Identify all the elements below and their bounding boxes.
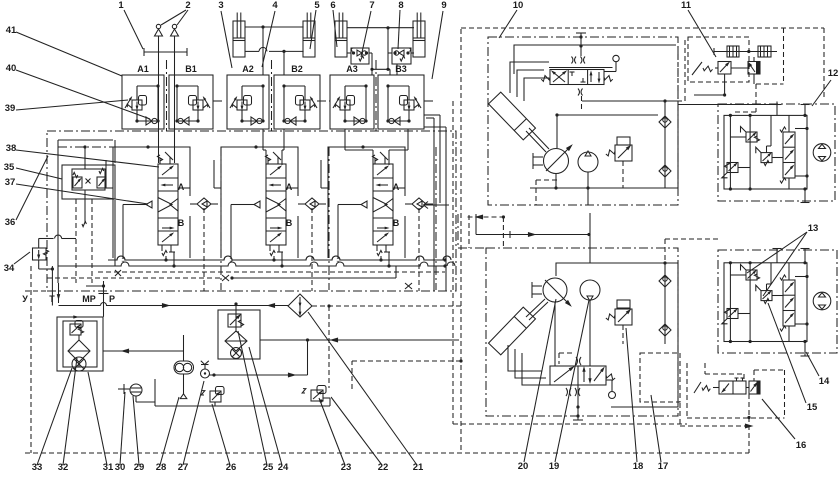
section divider dash-dot verticals [166,60,168,131]
svg-text:36: 36 [5,217,16,228]
gauge pair 28 capsule [174,361,194,374]
pump B outlet lines [589,300,591,366]
tank gallery bus 1 [108,259,445,261]
spool section 3 left port arrow [361,201,367,208]
filter unit block 31-33 [57,317,103,371]
pump A relief valve [615,145,632,161]
svg-text:28: 28 [156,462,167,473]
svg-text:38: 38 [6,143,17,154]
inlet section frame [424,114,440,116]
motor 14 inner frame [724,263,807,342]
pump A case drain dashed [536,179,557,181]
spool section 2 work port lines [214,187,221,189]
label 26 leader [212,404,230,465]
pilot port X mark 2 [405,283,412,289]
pilot dash-dot links between sections [213,100,224,102]
filter 24 [225,331,247,351]
pilot dashed return line [468,216,504,218]
work port risers A3 B3 [344,129,346,150]
section A3 inner frame [345,85,366,87]
svg-text:13: 13 [808,223,819,234]
spool section 1 section frame [113,147,190,258]
outer dashed boundary left [30,266,32,453]
pilot port X mark 0 [115,270,121,276]
label 40 leader [16,70,150,119]
pilot lever 16 [694,382,701,393]
pair2 interconnect line [347,27,414,29]
svg-text:2: 2 [185,0,190,11]
svg-text:7: 7 [369,0,374,11]
pilot valve 11a [718,62,731,75]
svg-text:11: 11 [681,0,692,11]
pilot drain dashed rail 1 [98,271,445,273]
pump A valve springs [541,74,551,81]
air bleed symbol 2a [155,29,163,36]
bottom gallery line [155,405,330,407]
pilot group 11 drains [724,74,726,95]
label 11 leader [688,10,716,57]
label 4 leader [262,11,275,67]
pair1 interconnect lines [245,26,304,28]
pump B relief valve [615,309,632,325]
section B2 anticavitation check [284,120,305,122]
section A1 relief valve [132,100,142,110]
pump A servo cylinder [489,92,536,140]
bypass relief 25 [228,314,241,327]
filter unit 2 block 24-25 [218,310,260,359]
hydraulic motor 14 [813,292,831,310]
port relief section B1 [169,75,213,129]
pilot valve 11b [753,57,755,62]
main pump A [544,149,569,174]
section A1 anticavitation check [137,120,158,122]
directional spool valve section 2 [266,164,286,245]
svg-text:B1: B1 [185,64,197,74]
work port risers A2 B2 [262,129,264,150]
spool section 1 center bowtie [158,198,172,213]
label 20 leader [524,299,556,462]
spool section 3 section frame [328,147,405,258]
pump A control valve [550,70,604,85]
label 12 leader [812,80,831,106]
cylinder 3 (left of pair 1) [233,21,245,57]
reducing valve 35b [97,177,106,188]
pilot dashed link to pump B [351,361,353,389]
pump B dash-dot entry [457,214,459,248]
pump B check diamond 2 [659,324,671,336]
label 17 leader [651,395,661,462]
MP port [103,281,105,317]
svg-text:35: 35 [4,162,15,173]
pump A check diamond 2 [659,165,671,177]
svg-text:10: 10 [513,0,524,11]
label 37 leader [16,184,148,204]
cooler 33 [72,357,86,371]
mid dashed vertical 1 [460,29,462,452]
pump A valve knob [604,71,616,73]
motor 12 relief a [746,132,757,142]
main riser B1 [174,36,176,163]
label 32 leader [63,358,77,465]
main riser A1 [158,36,160,163]
svg-text:12: 12 [828,68,839,79]
pilot valve 16 body [719,381,746,394]
label 16 leader [762,399,795,439]
valve 34 feed lines [38,238,40,248]
motor 12 relief b [727,163,738,173]
svg-text:5: 5 [314,0,320,11]
svg-text:30: 30 [115,462,126,473]
cylinder 5 (right of pair 1) [303,21,315,57]
spool section 3 pilot cap [374,158,376,164]
spool section 2 anticav check [305,198,319,210]
return line continues dashed [312,305,461,307]
valve block bottom risers [426,117,434,119]
label 23 leader [319,398,345,465]
pilot collector line [230,276,233,279]
svg-text:B: B [393,218,400,228]
section A3 anticavitation check [345,120,366,122]
svg-text:B: B [286,218,293,228]
pump A stair pipes [510,62,549,93]
pump A check line [664,101,666,188]
svg-text:29: 29 [134,462,145,473]
label 5 leader [310,10,316,49]
travel pilot line [678,104,775,106]
pump B valve nozzles [576,357,581,365]
pressure gauge 29 30 [130,384,142,396]
plugged test port line 1 [144,51,187,53]
svg-text:23: 23 [341,462,352,473]
anticav drain dashed risers [203,208,205,291]
section B3 anticavitation check [388,120,409,122]
spool section 1 anticav check [197,198,211,210]
svg-text:4: 4 [272,0,278,11]
cooler 24b [231,348,242,359]
drain funnel 28 [180,394,187,399]
motor 14 relief a [746,270,757,280]
spool section 1 bottom spring [161,245,163,251]
pump B frame [556,263,678,407]
spool section 1 section dash-dot divider [220,147,222,290]
mid dashed vertical 2 [468,215,470,248]
pump B valve knob [606,379,612,381]
label 22 leader [331,397,382,465]
spool section 1 bottom stubs [165,256,167,260]
svg-text:40: 40 [6,63,17,74]
label 21 leader [308,312,417,465]
section B2 relief valve [300,100,310,110]
bypass relief 31 [70,324,81,335]
label 28 leader [160,397,179,465]
label 34 leader [14,252,30,264]
main pump B [543,278,567,302]
tank suction line with chevron [423,204,449,206]
outer dashed right edge [823,28,825,100]
svg-text:A2: A2 [242,64,254,74]
svg-text:9: 9 [441,0,446,11]
pilot supply dash-dot rail [58,146,113,148]
pump A servo rod [526,131,546,152]
svg-text:B2: B2 [291,64,303,74]
section A2 relief valve [237,100,247,110]
spool section 1 left port arrow [146,201,152,208]
spool section 2 pilot cap [267,158,269,164]
spool section 2 section dash-dot divider [328,147,330,290]
counterbalance valve 14 [783,280,795,326]
label 9 leader [432,11,443,79]
spool section 1 work port lines [106,187,113,189]
pump A valve top rail [549,67,613,69]
svg-text:15: 15 [807,402,818,413]
cylinder 6 (left of pair 2) [335,21,347,57]
shutoff valve 26 [210,391,221,402]
section B1 inner frame [177,85,198,87]
pilot dashed into check line [664,239,666,262]
pump B pilot cap dashed [559,352,572,354]
pilot group 11 dashed box [688,37,749,82]
svg-text:37: 37 [5,177,16,188]
pump supply line P [106,305,288,307]
drop to accumulator valve dashed [328,306,330,388]
pump A feed lines [556,115,558,148]
spool section 3 anticav check [412,198,426,210]
motor 14 relief b [727,309,738,319]
pump B check line [664,263,666,344]
pilot reducing block 35 inner [72,169,105,190]
pump B servo rod [526,299,545,317]
inter-pump supply line [476,234,589,236]
label 31 leader [88,372,107,465]
spool section 2 section frame [221,147,298,258]
cylinder 9 (right of pair 2) [413,21,425,57]
pump block B boundary (dash-dot) [486,248,678,416]
pump region outer dashed boundary [452,101,454,424]
svg-text:27: 27 [178,462,189,473]
port relief section B3 [378,75,424,129]
spool section 1 pilot cap [159,158,161,164]
svg-text:41: 41 [6,25,17,36]
tank line T elbow [58,283,60,303]
spool section 3 section dash-dot divider [435,147,437,290]
directional spool valve section 3 [373,164,393,245]
motor 12 relief c [761,153,772,163]
spool section 2 left port arrow [254,201,260,208]
label 24 leader [249,347,282,465]
brake line [714,51,777,53]
label 19 leader [555,300,589,462]
svg-text:P: P [109,294,115,304]
travel motor box 14 (dash-dot) [718,250,837,353]
outer dashed boundary bottom [25,452,749,454]
relief valve 34 [33,248,47,260]
pump A outlet lines [587,172,589,188]
section A2 inner frame [242,85,263,87]
label 33 leader [37,368,72,465]
return line to filter2 [260,339,459,341]
svg-text:3: 3 [218,0,223,11]
filter2 wiring [235,304,237,332]
brake symbol 11a [727,46,739,57]
pilot check valve 8 [392,48,411,64]
pump B servo cylinder [489,307,536,355]
svg-text:1: 1 [118,0,124,11]
pilot 16 wiring [748,394,750,417]
block 35 riser [84,147,86,169]
label 30 leader [120,392,125,465]
motor 12 port stubs [776,105,778,116]
label 13 leaders [747,232,807,273]
pilot port X mark 1 [222,275,229,281]
hydraulic motor 12 [813,144,831,162]
label 10 leader [499,10,517,38]
pilot group 16 dashed boxes [686,363,688,418]
counterbalance valve 12 [783,132,795,178]
filter unit wiring [78,335,80,340]
pilot check valve 7 [351,48,369,64]
pair2 wiring [387,28,389,69]
svg-text:17: 17 [658,461,669,472]
drain dashed verticals [183,404,185,406]
outer dashed step around valve 11b [783,28,785,84]
motor 14 relief c [761,291,772,301]
tank gallery bus 2 [58,265,445,267]
svg-text:34: 34 [4,263,15,274]
label 35 leader [16,168,62,179]
gauge 27 tap line [210,374,308,376]
main valve block boundary (dash-dot) [47,131,456,291]
pump A regulator frame [514,45,676,74]
pilot reducing block 35 outer [62,165,115,199]
section A2 anticavitation check [242,120,263,122]
section A1 inner frame [137,85,158,87]
svg-text:19: 19 [549,461,560,472]
pump A valve nozzles [572,57,586,64]
label 39 leader [16,100,128,110]
svg-text:33: 33 [32,462,43,473]
svg-text:A: A [178,182,185,192]
label 2 leaders [161,10,186,25]
motor 14 wiring [729,263,731,342]
reducing valve 35a [73,177,82,188]
port relief section A2 [227,75,269,129]
label 14 leader [806,352,819,376]
valve block inner frame [57,140,59,283]
spool section 2 center bowtie [266,198,280,213]
svg-text:B3: B3 [395,64,407,74]
svg-text:26: 26 [226,462,237,473]
label 29 leader [133,396,139,465]
pump B lower link dashed [640,353,680,402]
spool section 3 work port lines [321,187,328,189]
port relief section A1 [122,75,164,129]
directional spool valve section 1 [158,164,178,245]
travel motor box 12 (dash-dot) [718,104,835,201]
motor 12 inner frame [724,115,807,189]
label 27 leader [183,381,204,465]
motor 12 wiring [729,115,731,189]
pump B stair pipes [508,345,542,371]
spool section 2 bottom stubs [273,256,275,260]
svg-text:6: 6 [330,0,335,11]
svg-text:8: 8 [398,0,403,11]
spool section 3 bottom spring [376,245,378,251]
svg-text:31: 31 [103,462,114,473]
label 6 leader [333,10,337,47]
section B1 anticavitation check [177,120,198,122]
svg-text:22: 22 [378,462,389,473]
pump A box right dashes [677,46,679,100]
accumulator valve 22 23 [311,390,323,401]
svg-text:24: 24 [278,462,289,473]
pump B check diamond 1 [659,275,671,287]
svg-text:21: 21 [413,462,424,473]
svg-text:25: 25 [263,462,274,473]
svg-text:39: 39 [5,103,16,114]
pump B control valve [550,366,606,385]
svg-text:A3: A3 [346,64,358,74]
svg-text:MP: MP [82,294,96,304]
pump A check diamond 1 [659,116,671,128]
label 36 leader [16,156,48,220]
svg-text:14: 14 [819,376,830,387]
charge pump A [578,152,598,172]
charge pump B [580,280,600,300]
svg-text:У: У [22,294,28,304]
return line to filter1 [103,350,183,352]
pump A pilot line center [580,37,582,56]
label 38 leader [16,150,159,167]
section B3 relief valve [404,100,414,110]
section A3 relief valve [340,100,350,110]
outer dashed top right [461,27,824,29]
label 41 leader [16,32,122,76]
svg-text:20: 20 [518,461,529,472]
spool section 3 center bowtie [373,198,387,213]
svg-text:32: 32 [58,462,69,473]
section B2 inner frame [284,85,305,87]
section B3 inner frame [388,85,409,87]
pump block A boundary (dash-dot) [488,37,678,205]
svg-text:18: 18 [633,461,644,472]
main return filter 21 [288,294,312,317]
spool section 3 bottom stubs [380,256,382,260]
label 3 leader [221,11,232,68]
label 7 leader [361,11,371,57]
spool section 2 bottom spring [269,245,271,251]
pilot valve 16b [749,381,760,394]
label 18 leader [626,328,637,462]
svg-text:A: A [286,182,293,192]
svg-text:A1: A1 [137,64,149,74]
svg-text:A: A [393,182,400,192]
air bleed symbol 2b [171,29,179,36]
label 25 leader [238,331,267,465]
block 35 pilot dashed drops [75,199,77,283]
label 1 leader [124,10,143,49]
pilot lever 11 [692,62,702,75]
label 15 leader [768,303,806,403]
section B1 relief valve [193,100,203,110]
svg-text:16: 16 [796,440,807,451]
filter 32 [68,340,90,362]
pump B valve spring [605,373,616,381]
svg-text:B: B [178,218,185,228]
motor 14 port stubs [776,249,778,263]
port relief section A3 [330,75,374,129]
pilot drain dashed rail 2 [47,277,221,279]
vent gauge 27 [201,369,210,378]
